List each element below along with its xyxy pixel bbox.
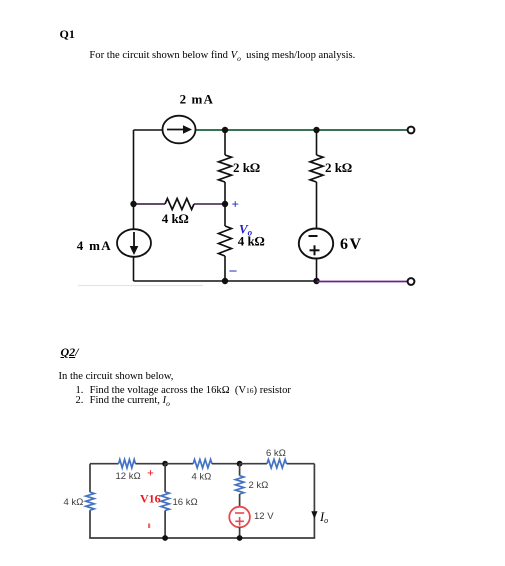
heading Q1	[60, 27, 75, 42]
svg-text:+: +	[147, 466, 154, 480]
label 6 V	[340, 236, 363, 253]
wire: center vertical between 2k and middle node	[224, 182, 226, 204]
wire: right vertical upper stub	[316, 130, 318, 155]
voltage source 12V (red circle, minus top plus bottom)	[229, 507, 250, 528]
polarity + for V16 (red)	[147, 466, 154, 480]
wire: top horizontal (source to right terminal, green tint)	[196, 129, 409, 131]
node: middle-left junction	[130, 201, 136, 207]
node: bottom-right junction	[313, 278, 319, 284]
wire: middle horizontal right stub	[194, 203, 225, 205]
wire: top-left segment (left corner to 2mA source)	[134, 129, 163, 131]
resistor 2k (blue zigzag)	[235, 476, 243, 494]
label 16 kOhm	[173, 497, 198, 508]
node: top-right junction	[313, 127, 319, 133]
node: top junction of 2k branch	[237, 461, 243, 467]
resistor 2k (right branch)	[310, 155, 323, 182]
label 2 mA	[180, 92, 214, 107]
terminal: top-right open circle	[408, 127, 415, 134]
resistor 16k (blue zigzag)	[161, 492, 169, 511]
label 2 kOhm (right branch)	[325, 160, 352, 175]
current source 4mA (circle with down arrow)	[117, 229, 151, 257]
svg-text:Io: Io	[319, 510, 328, 525]
wire: top segment a (corner to 12k)	[90, 463, 119, 465]
resistor 4k (horizontal, middle wire)	[165, 199, 194, 210]
svg-text:V16: V16	[140, 492, 161, 506]
resistor 4k (center branch, Vo across it)	[219, 226, 232, 256]
label 12 V	[254, 511, 274, 522]
polarity + for Vo (blue)	[232, 197, 239, 212]
label 2 kOhm (circuit 2)	[249, 480, 269, 491]
wire: center vertical upper lead of 4k	[224, 204, 226, 226]
svg-text:6 kΩ: 6 kΩ	[266, 448, 286, 459]
node: bottom-center junction	[222, 278, 228, 284]
wire: 16k branch top lead	[164, 464, 166, 492]
node: bottom junction of 12V branch	[237, 535, 243, 541]
wire: top segment d (4k to node2)	[212, 463, 240, 465]
node: middle-center junction	[222, 201, 228, 207]
label 2 kOhm (center branch)	[233, 160, 260, 175]
label 12 kOhm	[116, 471, 141, 482]
label 4 mA	[77, 238, 112, 253]
svg-text:12 kΩ: 12 kΩ	[116, 471, 141, 482]
faint scan line artifact	[78, 285, 203, 287]
wire: bottom horizontal of circuit 2	[89, 537, 315, 539]
wire: 12V source bottom lead	[239, 527, 241, 538]
label 4 kOhm (top)	[192, 472, 212, 483]
polarity - for Vo (blue)	[229, 263, 238, 278]
current source 2mA (circle with right arrow)	[163, 116, 196, 144]
svg-text:4 kΩ: 4 kΩ	[192, 472, 212, 483]
wire: top segment c (node1 to 4k)	[165, 463, 193, 465]
svg-text:4 kΩ: 4 kΩ	[162, 211, 189, 226]
node: bottom junction of 16k	[162, 535, 168, 541]
label V16 (red)	[140, 492, 161, 506]
wire: left vertical upper (top wire down to 4mA source)	[133, 130, 135, 230]
heading Q2	[61, 345, 79, 360]
wire: bottom horizontal right (purple tint)	[317, 281, 409, 283]
resistor 6k (blue zigzag)	[267, 460, 287, 468]
resistor 2k (center branch)	[219, 155, 232, 182]
wire: middle horizontal left stub	[134, 203, 166, 205]
list item 2	[76, 395, 84, 406]
current arrow Io on right wire	[311, 511, 317, 519]
wire: bottom horizontal (black part)	[134, 280, 317, 282]
node: top-center junction	[222, 127, 228, 133]
svg-text:2 mA: 2 mA	[180, 92, 214, 107]
svg-text:16 kΩ: 16 kΩ	[173, 497, 198, 508]
resistor 12k (blue zigzag)	[119, 460, 136, 468]
resistor 4k left (blue zigzag)	[86, 492, 94, 510]
wire: right vertical lower (6V to bottom wire)	[316, 259, 318, 281]
wire: center vertical upper stub	[224, 130, 226, 155]
list item 1	[76, 385, 84, 396]
instruction line Q1	[89, 50, 355, 63]
node: top junction of 16k	[162, 461, 168, 467]
polarity - for V16 (red, small)	[148, 524, 150, 529]
wire: center vertical lower lead of 4k	[224, 256, 226, 281]
svg-text:4 mA: 4 mA	[77, 238, 112, 253]
wire: left vertical lower (4mA source down to bottom wire)	[133, 257, 135, 281]
svg-text:4 kΩ: 4 kΩ	[64, 497, 84, 508]
label 4 kOhm (middle horizontal resistor)	[162, 211, 189, 226]
svg-text:2 kΩ: 2 kΩ	[325, 160, 352, 175]
wire: 2k to 12V source lead	[239, 494, 241, 507]
wire: left vertical bottom lead	[89, 510, 91, 538]
svg-text:12 V: 12 V	[254, 511, 274, 522]
node Vo label (blue)	[239, 222, 253, 238]
label Io (italic)	[319, 510, 328, 525]
terminal: bottom-right open circle	[408, 278, 415, 285]
svg-text:2 kΩ: 2 kΩ	[249, 480, 269, 491]
wire: top segment b (12k to node1)	[135, 463, 165, 465]
wire: left vertical top lead	[89, 464, 91, 493]
label 4 kOhm (center branch)	[238, 234, 265, 249]
svg-text:6V: 6V	[340, 236, 363, 253]
voltage source 6V (circle, minus top plus bottom)	[299, 229, 333, 259]
resistor 4k top (blue zigzag)	[193, 460, 212, 468]
paragraph Q2 intro	[59, 371, 174, 382]
wire: 2k branch top lead	[239, 464, 241, 476]
svg-text:+: +	[232, 197, 239, 212]
svg-text:2 kΩ: 2 kΩ	[233, 160, 260, 175]
wire: top segment f (6k to right corner)	[287, 463, 315, 465]
wire: 16k branch bottom lead	[164, 511, 166, 539]
label 6 kOhm	[266, 448, 286, 459]
wire: right vertical of circuit 2	[313, 464, 315, 538]
wire: top segment e (node2 to 6k)	[240, 463, 267, 465]
label 4 kOhm (left)	[64, 497, 84, 508]
svg-text:Vo: Vo	[239, 222, 253, 238]
svg-text:–: –	[229, 263, 238, 278]
wire: right vertical between 2k and 6V source	[316, 182, 318, 229]
